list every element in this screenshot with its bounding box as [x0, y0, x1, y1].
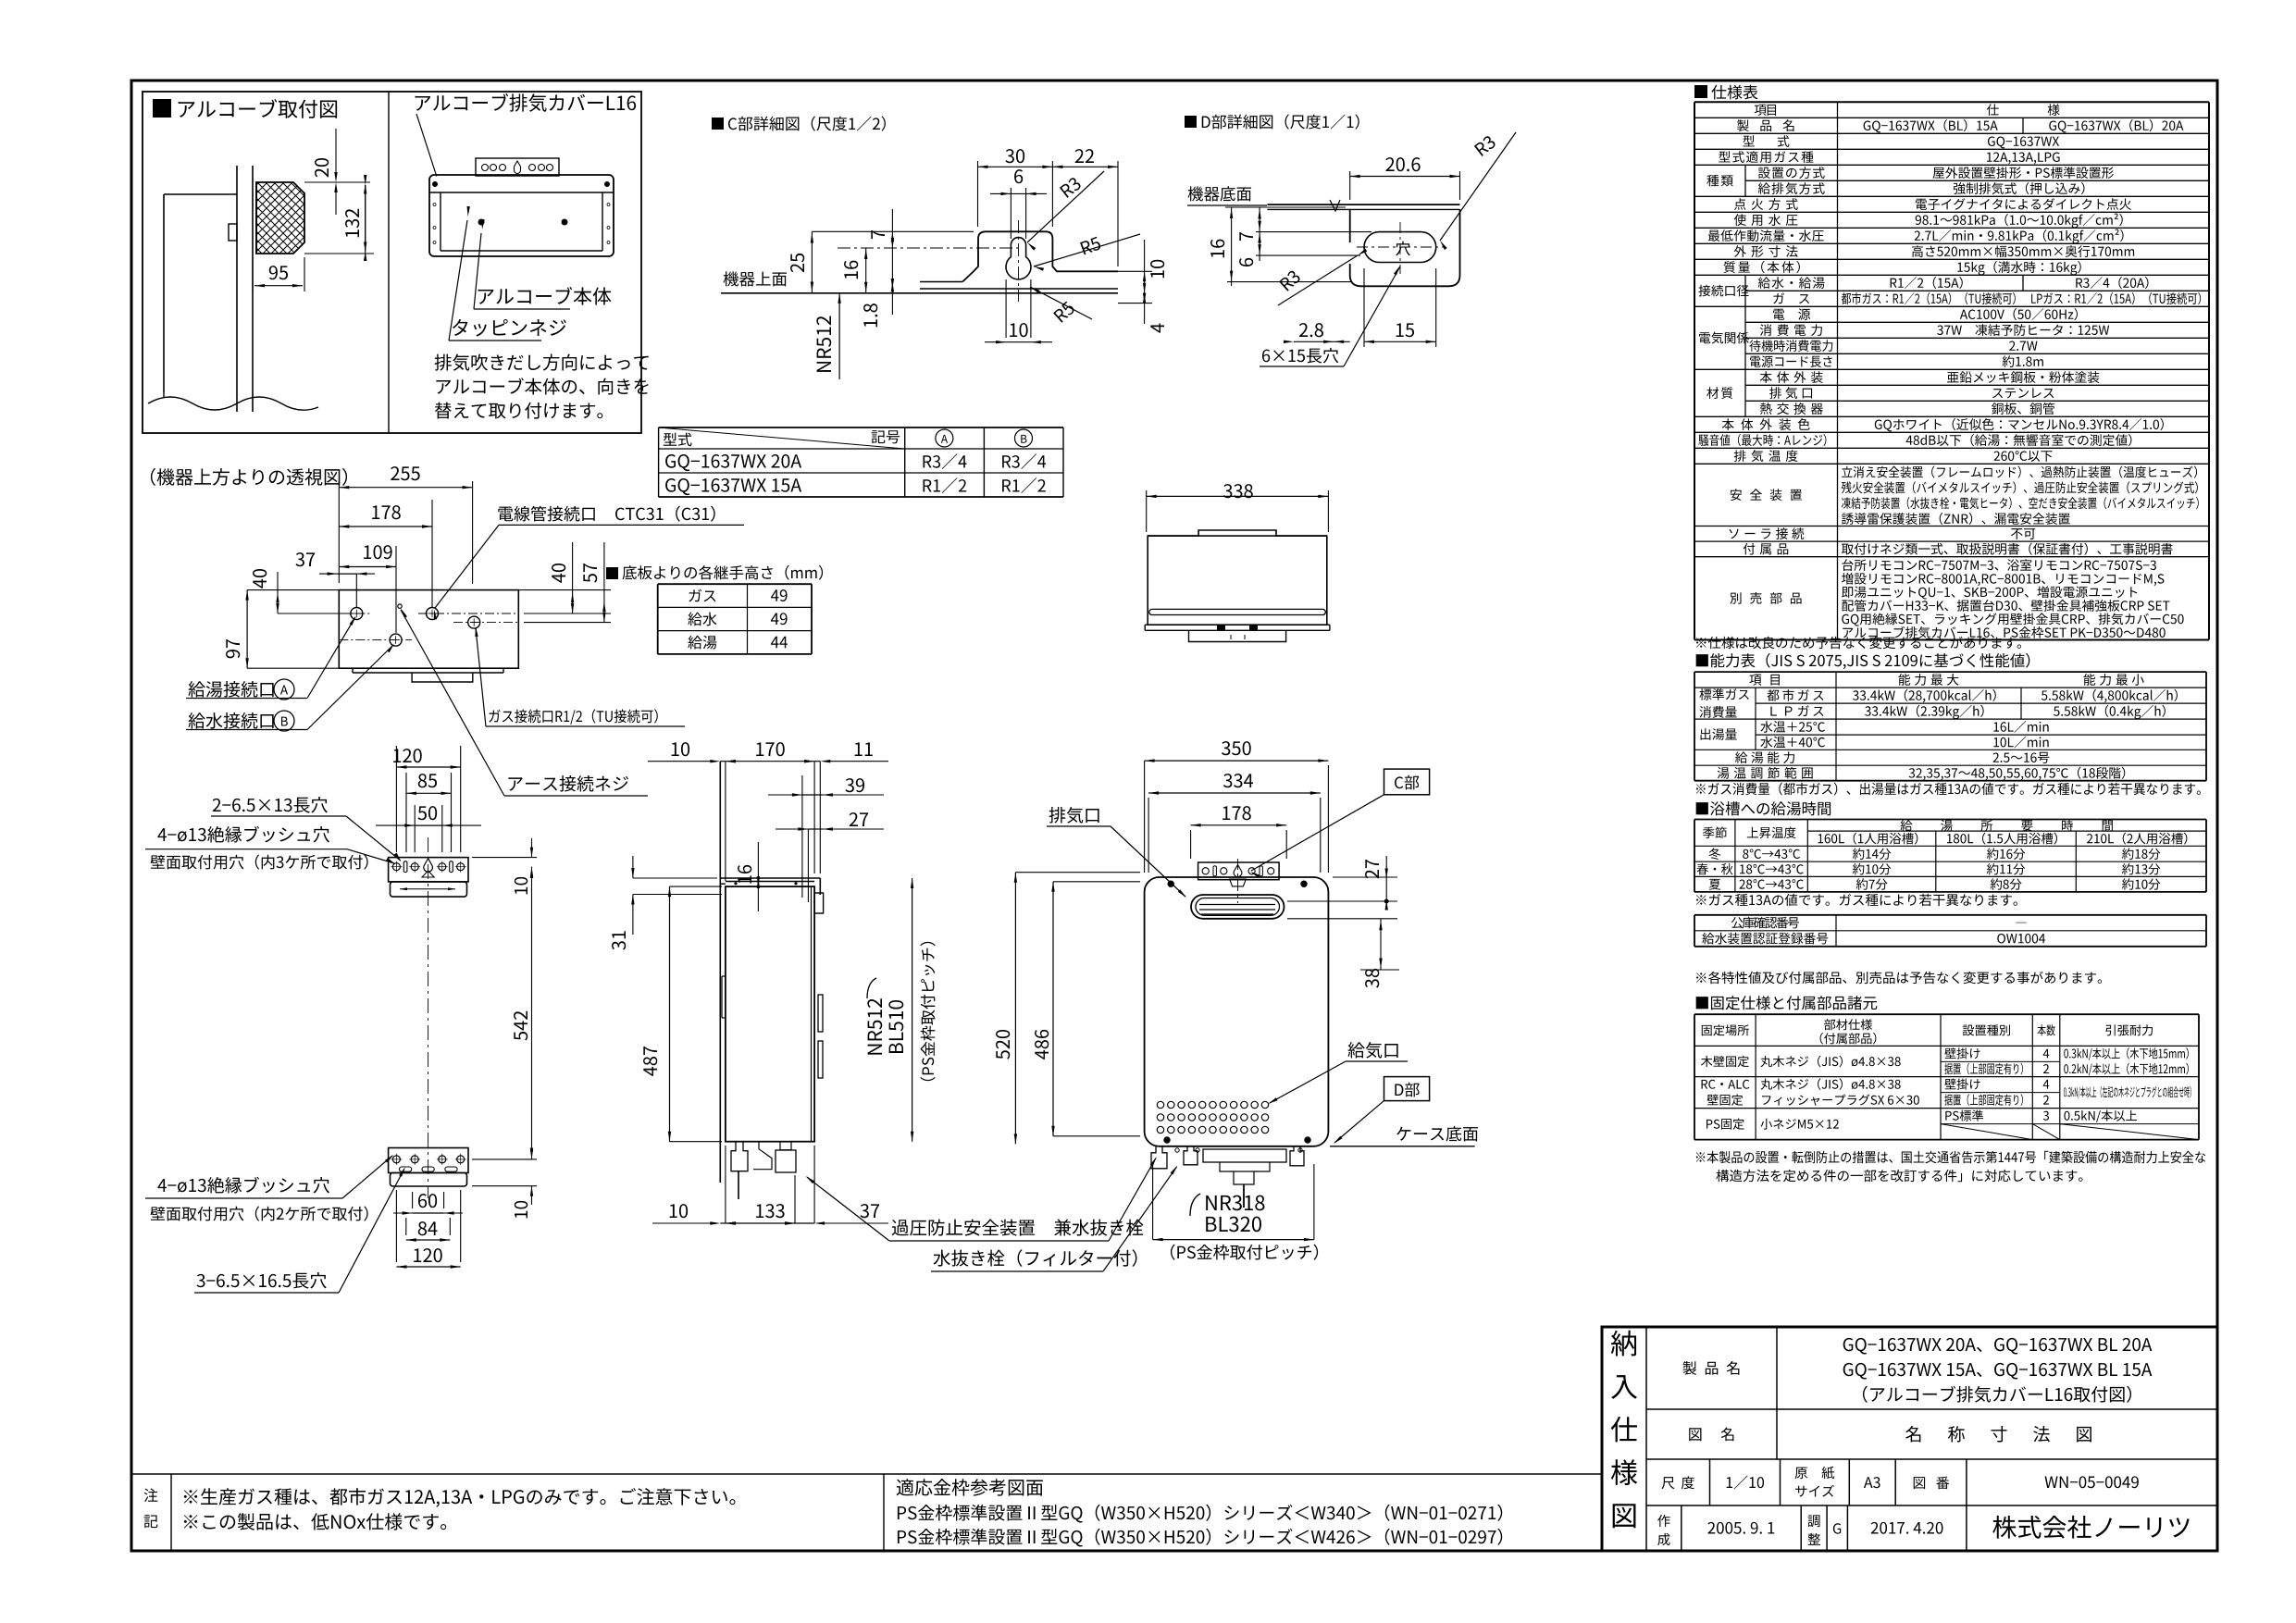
alcove dim 95 — [252, 257, 254, 291]
label 給水接続口 B — [188, 712, 273, 729]
rear view top bracket — [389, 858, 468, 882]
rear dim 10 top — [515, 877, 527, 894]
rear labels bottom-left — [157, 1177, 329, 1194]
D label R3 lower — [1279, 269, 1301, 291]
C label R5 lower — [1053, 301, 1075, 323]
front dim 27 right — [1365, 860, 1379, 878]
label アルコーブ本体 — [478, 287, 612, 305]
alcove dim 132 — [304, 253, 374, 254]
D dim 2.8 — [1299, 323, 1323, 337]
side dim 39 — [845, 778, 864, 792]
front C部 box label — [1384, 769, 1430, 795]
front dim 38 right — [1365, 969, 1379, 988]
title block 納入仕様図 — [1602, 1327, 2217, 1551]
D dim 7 — [1256, 231, 1371, 233]
D centerlines — [1399, 222, 1401, 274]
alcove dim 20 — [304, 181, 370, 183]
side bottom pipes — [731, 1142, 748, 1171]
label 電線管接続口 CTC31(C31) — [498, 506, 594, 522]
front dims 350 334 178 — [1222, 741, 1251, 755]
registration number table — [1694, 914, 2206, 916]
rear labels top-left — [213, 797, 328, 813]
joint height table — [606, 567, 618, 579]
front air intake hole grid — [1157, 1101, 1163, 1108]
D 機器底面 label — [1188, 186, 1251, 201]
top view dim 255 — [338, 481, 340, 583]
C detail 機器上面 label — [724, 271, 787, 286]
C dim 4 right — [1150, 324, 1164, 333]
side dim 31 — [612, 931, 626, 949]
side bracket plate top — [720, 877, 820, 879]
C dim 6 — [1010, 188, 1011, 239]
rear dims 120 85 50 — [393, 749, 422, 762]
label 水抜き栓（フィルター付） — [934, 1249, 1137, 1267]
D dim 16 — [1225, 206, 1346, 208]
C dim 10 right — [1057, 270, 1152, 272]
C NR512 — [816, 316, 831, 372]
top view dim 37 — [295, 552, 315, 566]
top view dim 40 left — [253, 569, 267, 588]
capacity table 能力表 — [1696, 653, 2030, 669]
label 過圧防止安全装置 兼水抜き栓 — [892, 1220, 1144, 1236]
rear dim 10 bottom — [515, 1201, 527, 1218]
C dim 30 — [977, 161, 979, 227]
rear bottom bracket holes — [392, 1156, 400, 1163]
label アース接続ネジ — [508, 775, 628, 792]
label 給湯接続口 A — [188, 681, 273, 698]
rear bottom dims — [418, 1194, 437, 1208]
side dim 27 — [850, 812, 868, 826]
alcove explanation text — [435, 354, 649, 371]
label ガス接続口R1/2 — [489, 709, 657, 725]
D slot 穴 — [1364, 232, 1436, 263]
bath fill time table — [1696, 801, 1831, 815]
side view top dims 10 170 11 — [672, 742, 689, 756]
top view body outline — [339, 590, 518, 669]
side dim 16 — [738, 865, 751, 884]
C dim 25 — [811, 231, 813, 292]
label タッピンネジ — [453, 319, 566, 337]
D label R3 upper — [1474, 135, 1496, 156]
front dims 520 486 — [996, 1030, 1010, 1059]
alcove left: wall section — [236, 166, 238, 412]
note strip 注記 — [131, 1473, 1602, 1475]
front PS金枠取付ピッチ dim — [1153, 1239, 1314, 1241]
C detail title — [712, 118, 724, 130]
front top bracket — [1198, 862, 1280, 880]
front 排気口 label — [1049, 807, 1099, 824]
D label 6x15長穴 — [1262, 348, 1338, 364]
rear top bracket holes — [392, 863, 400, 871]
cover top bracket — [476, 158, 559, 176]
D bracket outline — [1350, 209, 1460, 286]
C dim 10 bottom — [1005, 279, 1007, 338]
model symbol table — [659, 427, 1063, 428]
D detail title — [1185, 116, 1197, 128]
front view body — [1145, 877, 1329, 1146]
C keyhole slot — [1006, 238, 1031, 279]
C detail profile — [920, 281, 962, 283]
top view connection circles — [351, 608, 363, 620]
front screws — [1168, 881, 1173, 886]
rear centerline — [428, 837, 429, 1198]
D base plate lines — [1267, 204, 1459, 205]
top view dim 109 — [339, 566, 396, 568]
top view dim 40/57 right — [552, 564, 565, 583]
front exhaust oval — [1191, 895, 1285, 919]
front bottom fittings — [1151, 1146, 1167, 1169]
top view centerline dashes — [339, 613, 370, 614]
rear top bracket inner arrow — [400, 888, 455, 890]
C dim 16 — [865, 248, 867, 293]
top view dim 178 — [339, 526, 432, 527]
C dim 1.8 — [863, 304, 877, 327]
D dim 15 — [1396, 323, 1414, 337]
Noritz logo 株式会社ノーリツ — [1992, 1516, 2189, 1539]
side small latch mid-left — [722, 975, 726, 977]
cover body — [429, 175, 614, 256]
spec table 仕様表 — [1694, 85, 1707, 98]
side dim 487 — [643, 1047, 657, 1076]
side bottom dims 10 133 37 — [670, 1204, 688, 1218]
alcove mounting diagram box — [143, 92, 641, 433]
front ケース底面 label — [1396, 1126, 1478, 1142]
C label R3 — [1060, 177, 1082, 198]
front 給気口 label — [1347, 1042, 1397, 1059]
front NR318 BL320 label — [1206, 1196, 1264, 1211]
side dim NR512 BL510 — [867, 998, 882, 1054]
rear bottom bracket — [389, 1148, 468, 1173]
rear dim 542 — [514, 1011, 527, 1041]
side front bracket strip — [819, 878, 821, 895]
C label R5 right — [1080, 237, 1101, 255]
fixing spec table 固定仕様と付属部品諸元 — [1696, 996, 1878, 1010]
338 simple top view — [1223, 484, 1253, 498]
C dim 22 — [1117, 161, 1119, 266]
side view case body — [726, 886, 814, 1142]
side PS bracket rail on front — [812, 886, 815, 1142]
top view title — [151, 468, 347, 486]
front D部 box label — [1384, 1077, 1430, 1101]
C dim 7 — [812, 230, 974, 232]
alcove right: exhaust cover L16 — [416, 93, 637, 112]
C centerlines — [1018, 220, 1020, 302]
top view dim 97 — [226, 639, 240, 658]
D dim 20.6 — [1349, 171, 1351, 200]
D dim 6 — [1256, 254, 1360, 256]
338 view body — [1148, 530, 1327, 536]
side view wall line — [719, 762, 721, 1183]
